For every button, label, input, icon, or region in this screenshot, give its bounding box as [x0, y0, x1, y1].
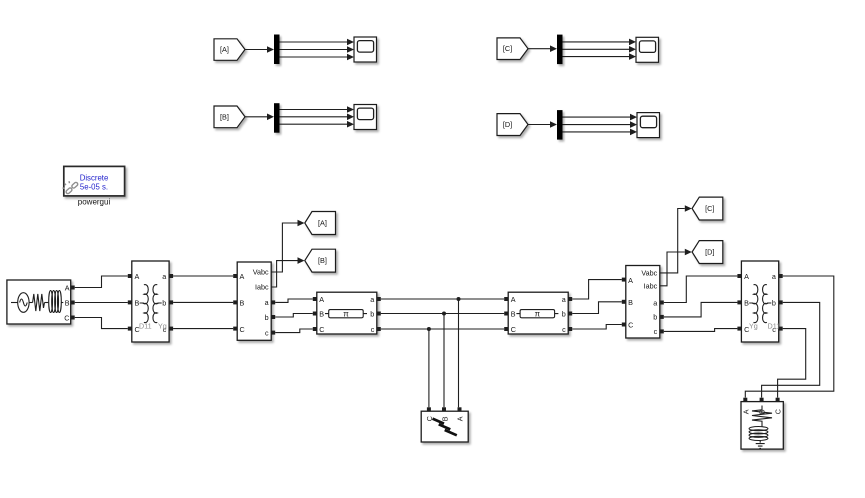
line1 pi icon	[329, 310, 364, 318]
wire line2 b to meas2 B	[572, 302, 622, 314]
svg-text:A: A	[240, 272, 245, 281]
wire demux2 out 3	[280, 121, 355, 128]
svg-text:C: C	[319, 325, 324, 334]
svg-text:D11: D11	[768, 322, 781, 331]
scope 1	[354, 37, 377, 62]
goto tag [D]	[692, 241, 723, 264]
three-phase V-I measurement 2	[622, 266, 664, 339]
wire from [D] to demux4	[528, 121, 557, 128]
junction node phase B	[442, 312, 446, 316]
transformer T1 (D11/Yg)	[128, 261, 173, 342]
wire line1 b to line2 B	[381, 313, 504, 315]
svg-text:a: a	[162, 272, 166, 281]
svg-text:π: π	[343, 310, 349, 319]
svg-text:B: B	[65, 298, 70, 307]
wire meas2 b to T2 B	[664, 302, 738, 317]
svg-text:B: B	[628, 298, 633, 307]
powergui block	[63, 166, 125, 196]
svg-text:Iabc: Iabc	[644, 282, 658, 291]
svg-text:A: A	[744, 272, 749, 281]
load icon inductor	[749, 427, 768, 431]
goto tag [C]	[692, 197, 723, 220]
wire demux3 out 2	[563, 46, 637, 53]
svg-text:a: a	[562, 295, 566, 304]
wire from [C] to demux3	[528, 45, 557, 52]
svg-text:b: b	[772, 298, 776, 307]
wire demux2 out 1	[280, 106, 355, 113]
wire source A to T1 A	[75, 276, 128, 288]
load icon ground	[756, 444, 765, 449]
T2 port nubs	[737, 274, 741, 278]
wire source B to T1 B	[75, 302, 128, 304]
wire meas2 Iabc to goto [D]	[660, 249, 692, 286]
wire demux3 out 1	[563, 39, 637, 46]
three-phase source block	[7, 280, 75, 324]
wire T2 c to load C	[778, 329, 806, 398]
svg-text:C: C	[628, 321, 633, 330]
wire demux1 out 3	[280, 54, 355, 61]
wire line2 a to meas2 A	[572, 280, 622, 299]
svg-text:B: B	[744, 298, 749, 307]
svg-text:c: c	[371, 325, 375, 334]
scope 2	[354, 105, 377, 130]
svg-text:Vabc: Vabc	[253, 268, 269, 277]
wire demux1 out 1	[280, 39, 355, 46]
svg-text:b: b	[370, 310, 374, 319]
svg-text:[D]: [D]	[705, 248, 714, 257]
svg-text:b: b	[562, 310, 566, 319]
three-phase V-I measurement 1	[233, 262, 275, 340]
fault port nubs	[427, 407, 431, 411]
wire demux4 out 3	[563, 129, 638, 136]
T1 port nubs	[128, 274, 132, 278]
svg-text:b: b	[265, 313, 269, 322]
svg-text:B: B	[135, 298, 140, 307]
svg-text:[A]: [A]	[318, 219, 327, 228]
svg-text:A: A	[135, 272, 140, 281]
svg-text:C: C	[511, 325, 516, 334]
svg-text:A: A	[319, 295, 324, 304]
from tag [D]	[497, 114, 528, 136]
svg-text:a: a	[653, 298, 657, 307]
svg-text:c: c	[562, 325, 566, 334]
wire from [A] to demux1	[245, 46, 274, 53]
wire meas2 Vabc to goto [C]	[660, 205, 692, 273]
svg-text:A: A	[511, 295, 516, 304]
svg-text:Discrete: Discrete	[80, 174, 109, 183]
svg-text:[C]: [C]	[503, 44, 512, 53]
wire from [B] to demux2	[245, 114, 274, 121]
svg-text:[B]: [B]	[220, 112, 229, 121]
svg-text:c: c	[654, 327, 658, 336]
three-phase fault block	[421, 407, 468, 442]
svg-text:powergui: powergui	[78, 197, 111, 206]
junction node phase C	[427, 327, 431, 331]
T2 winding right	[763, 285, 767, 323]
svg-text:A: A	[628, 276, 633, 285]
svg-text:a: a	[265, 298, 269, 307]
svg-text:[D]: [D]	[503, 120, 512, 129]
goto tag [A]	[305, 212, 336, 235]
load icon resistor	[749, 406, 772, 449]
wire junction A to fault A	[458, 299, 460, 407]
wire T2 a to load A	[745, 276, 834, 398]
wire meas2 a to T2 A	[664, 276, 738, 303]
wire T2 b to load B	[762, 302, 820, 397]
demux 4	[557, 110, 563, 140]
source icon resistor	[33, 294, 45, 311]
distributed parameters line 2	[504, 292, 572, 334]
wire demux1 out 2	[280, 46, 355, 53]
source port nubs	[71, 286, 75, 290]
svg-text:Yg: Yg	[158, 322, 167, 331]
svg-text:a: a	[772, 272, 776, 281]
meas2 port nubs	[622, 278, 626, 282]
powergui label	[78, 197, 111, 206]
svg-text:5e-05 s.: 5e-05 s.	[80, 183, 108, 192]
wire line1 a to line2 A	[381, 298, 504, 300]
wire meas1 c to line1 C	[275, 329, 313, 333]
wire line2 c to meas2 C	[572, 325, 622, 330]
svg-text:π: π	[535, 310, 541, 319]
line2 port nubs	[504, 297, 508, 301]
svg-text:D11: D11	[139, 322, 152, 331]
demux 1	[274, 35, 280, 65]
scope 3	[636, 37, 659, 62]
meas1 port nubs	[233, 274, 237, 278]
scope 4	[637, 113, 660, 138]
junction node phase A	[457, 297, 461, 301]
svg-text:b: b	[162, 298, 166, 307]
svg-text:C: C	[425, 416, 434, 421]
T2 winding leads	[749, 302, 771, 304]
svg-text:[A]: [A]	[220, 45, 229, 54]
svg-text:C: C	[64, 313, 69, 322]
goto tag [B]	[305, 249, 336, 272]
svg-text:B: B	[440, 416, 449, 421]
wire junction C to fault C	[428, 329, 430, 407]
from tag [B]	[214, 106, 245, 128]
svg-text:A: A	[65, 283, 70, 292]
wire junction B to fault B	[443, 314, 445, 408]
svg-text:c: c	[265, 328, 269, 337]
wire T1 b to meas1 B	[173, 301, 233, 303]
wire T1 c to meas1 C	[173, 328, 233, 330]
svg-text:B: B	[511, 310, 516, 319]
powergui broken-link icon	[63, 181, 79, 194]
wire demux2 out 2	[280, 114, 355, 121]
T1 winding right	[153, 285, 157, 323]
wire line1 c to line2 C	[381, 328, 504, 330]
wire demux4 out 2	[563, 121, 638, 128]
svg-text:B: B	[319, 310, 324, 319]
svg-text:b: b	[653, 313, 657, 322]
from tag [A]	[214, 39, 245, 61]
svg-text:[C]: [C]	[705, 204, 714, 213]
svg-text:[B]: [B]	[318, 256, 327, 265]
wire source C to T1 C	[75, 318, 128, 329]
svg-text:Vabc: Vabc	[641, 269, 657, 278]
T1 winding left	[144, 285, 148, 323]
svg-text:C: C	[240, 325, 245, 334]
wire demux4 out 1	[563, 114, 638, 121]
wire meas1 a to line1 A	[275, 299, 313, 302]
three-phase RL load block	[741, 398, 783, 449]
T2 winding left	[754, 285, 758, 323]
source icon sine generator	[11, 291, 63, 313]
line2 pi icon	[520, 310, 555, 318]
svg-text:A: A	[455, 416, 464, 421]
load port nubs	[743, 398, 747, 402]
svg-text:Yg: Yg	[749, 322, 758, 331]
svg-text:Iabc: Iabc	[255, 283, 269, 292]
svg-text:A: A	[741, 409, 750, 414]
transformer T2 (Yg/D11)	[737, 261, 782, 342]
wire demux3 out 3	[563, 53, 637, 60]
wire meas1 Iabc to goto [B]	[271, 257, 304, 287]
T1 winding leads	[140, 302, 162, 304]
line1 port nubs	[313, 297, 317, 301]
fault lightning bolt	[433, 419, 457, 436]
source icon inductor	[49, 291, 53, 313]
distributed parameters line 1	[313, 292, 381, 334]
demux 2	[274, 103, 280, 133]
svg-text:B: B	[240, 298, 245, 307]
svg-text:C: C	[774, 409, 783, 414]
svg-text:a: a	[370, 295, 374, 304]
from tag [C]	[497, 38, 528, 60]
wire meas1 Vabc to goto [A]	[271, 220, 304, 272]
wire meas2 c to T2 C	[664, 329, 738, 332]
demux 3	[557, 35, 563, 65]
wire meas1 b to line1 B	[275, 314, 313, 318]
wire T1 a to meas1 A	[173, 275, 233, 277]
